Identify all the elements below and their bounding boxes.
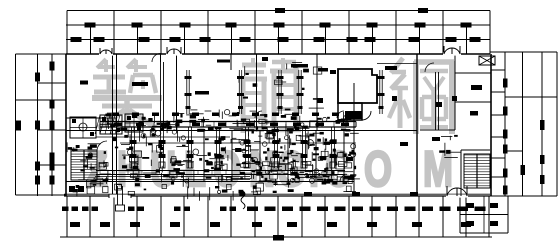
- svg-text:O: O: [364, 142, 392, 197]
- svg-text:.: .: [309, 142, 319, 197]
- svg-text:C: C: [325, 142, 351, 197]
- svg-text:U: U: [150, 142, 176, 197]
